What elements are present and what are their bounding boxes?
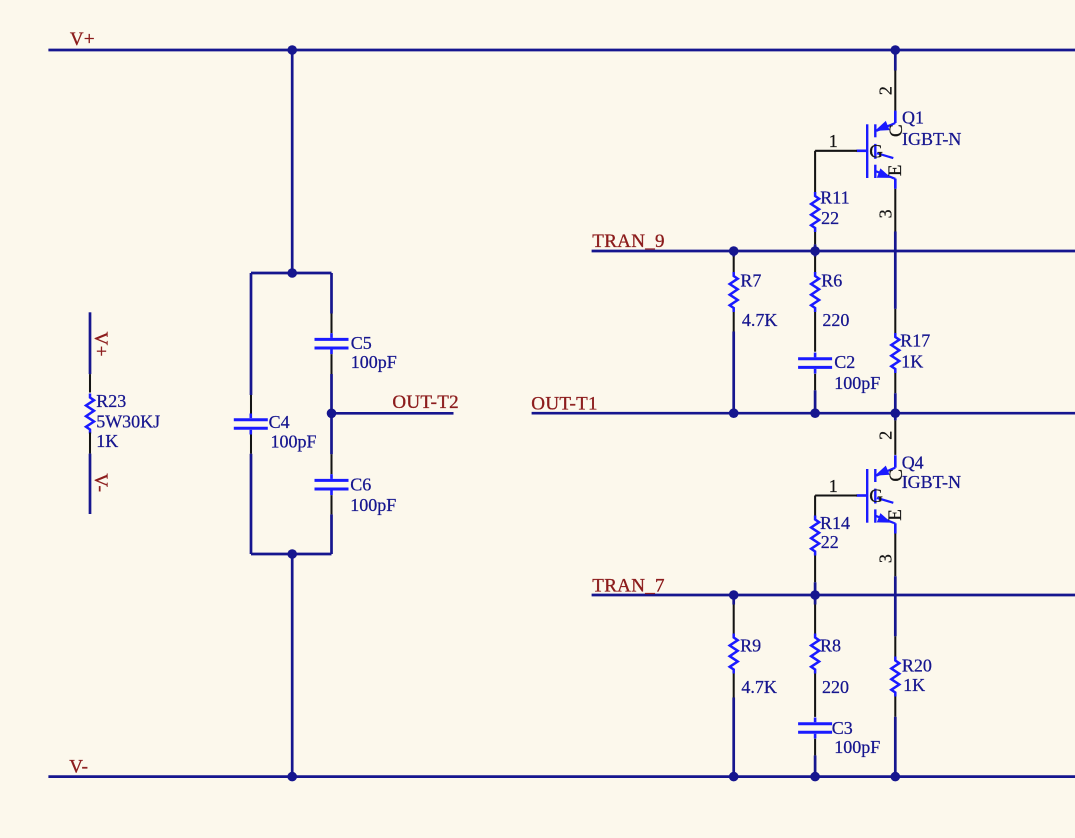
svg-text:C3: C3 (832, 718, 853, 738)
svg-text:220: 220 (822, 677, 849, 697)
svg-text:OUT-T1: OUT-T1 (531, 393, 598, 414)
svg-text:C6: C6 (350, 475, 371, 495)
svg-text:IGBT-N: IGBT-N (902, 472, 961, 492)
svg-text:100pF: 100pF (351, 352, 397, 372)
svg-text:E: E (885, 509, 906, 521)
svg-text:V-: V- (69, 756, 88, 777)
svg-text:R14: R14 (820, 513, 850, 533)
svg-text:R9: R9 (740, 636, 761, 656)
svg-text:Q1: Q1 (902, 108, 924, 128)
svg-text:R7: R7 (740, 271, 761, 291)
svg-text:22: 22 (821, 208, 839, 228)
svg-text:100pF: 100pF (271, 432, 317, 452)
svg-text:3: 3 (875, 209, 895, 218)
svg-text:V+: V+ (70, 29, 95, 50)
svg-text:V-: V- (90, 473, 111, 492)
svg-text:22: 22 (821, 532, 839, 552)
svg-text:4.7K: 4.7K (742, 310, 778, 330)
svg-text:1K: 1K (901, 351, 923, 371)
svg-text:C5: C5 (351, 333, 372, 353)
svg-text:R8: R8 (820, 636, 841, 656)
svg-text:TRAN_7: TRAN_7 (592, 576, 665, 597)
svg-text:TRAN_9: TRAN_9 (592, 231, 665, 252)
svg-text:C2: C2 (834, 352, 855, 372)
svg-text:C4: C4 (269, 412, 290, 432)
svg-text:E: E (885, 164, 906, 176)
svg-text:V+: V+ (90, 332, 111, 357)
svg-text:R20: R20 (902, 656, 932, 676)
svg-text:R17: R17 (900, 330, 930, 350)
svg-text:1: 1 (829, 476, 838, 496)
svg-text:100pF: 100pF (834, 373, 880, 393)
svg-text:1K: 1K (903, 675, 925, 695)
svg-text:R23: R23 (96, 391, 126, 411)
svg-text:220: 220 (822, 310, 849, 330)
svg-text:4.7K: 4.7K (741, 677, 777, 697)
svg-text:R6: R6 (821, 271, 842, 291)
svg-text:IGBT-N: IGBT-N (902, 129, 961, 149)
svg-text:OUT-T2: OUT-T2 (392, 392, 459, 413)
svg-text:100pF: 100pF (834, 737, 880, 757)
svg-text:2: 2 (875, 86, 895, 95)
svg-text:G: G (869, 142, 883, 163)
svg-text:1K: 1K (96, 431, 118, 451)
svg-text:100pF: 100pF (350, 495, 396, 515)
svg-text:2: 2 (875, 431, 895, 440)
svg-text:R11: R11 (820, 188, 849, 208)
svg-text:5W30KJ: 5W30KJ (96, 412, 160, 432)
svg-text:1: 1 (829, 131, 838, 151)
svg-text:3: 3 (875, 554, 895, 563)
svg-text:Q4: Q4 (902, 453, 924, 473)
svg-text:G: G (869, 486, 883, 507)
